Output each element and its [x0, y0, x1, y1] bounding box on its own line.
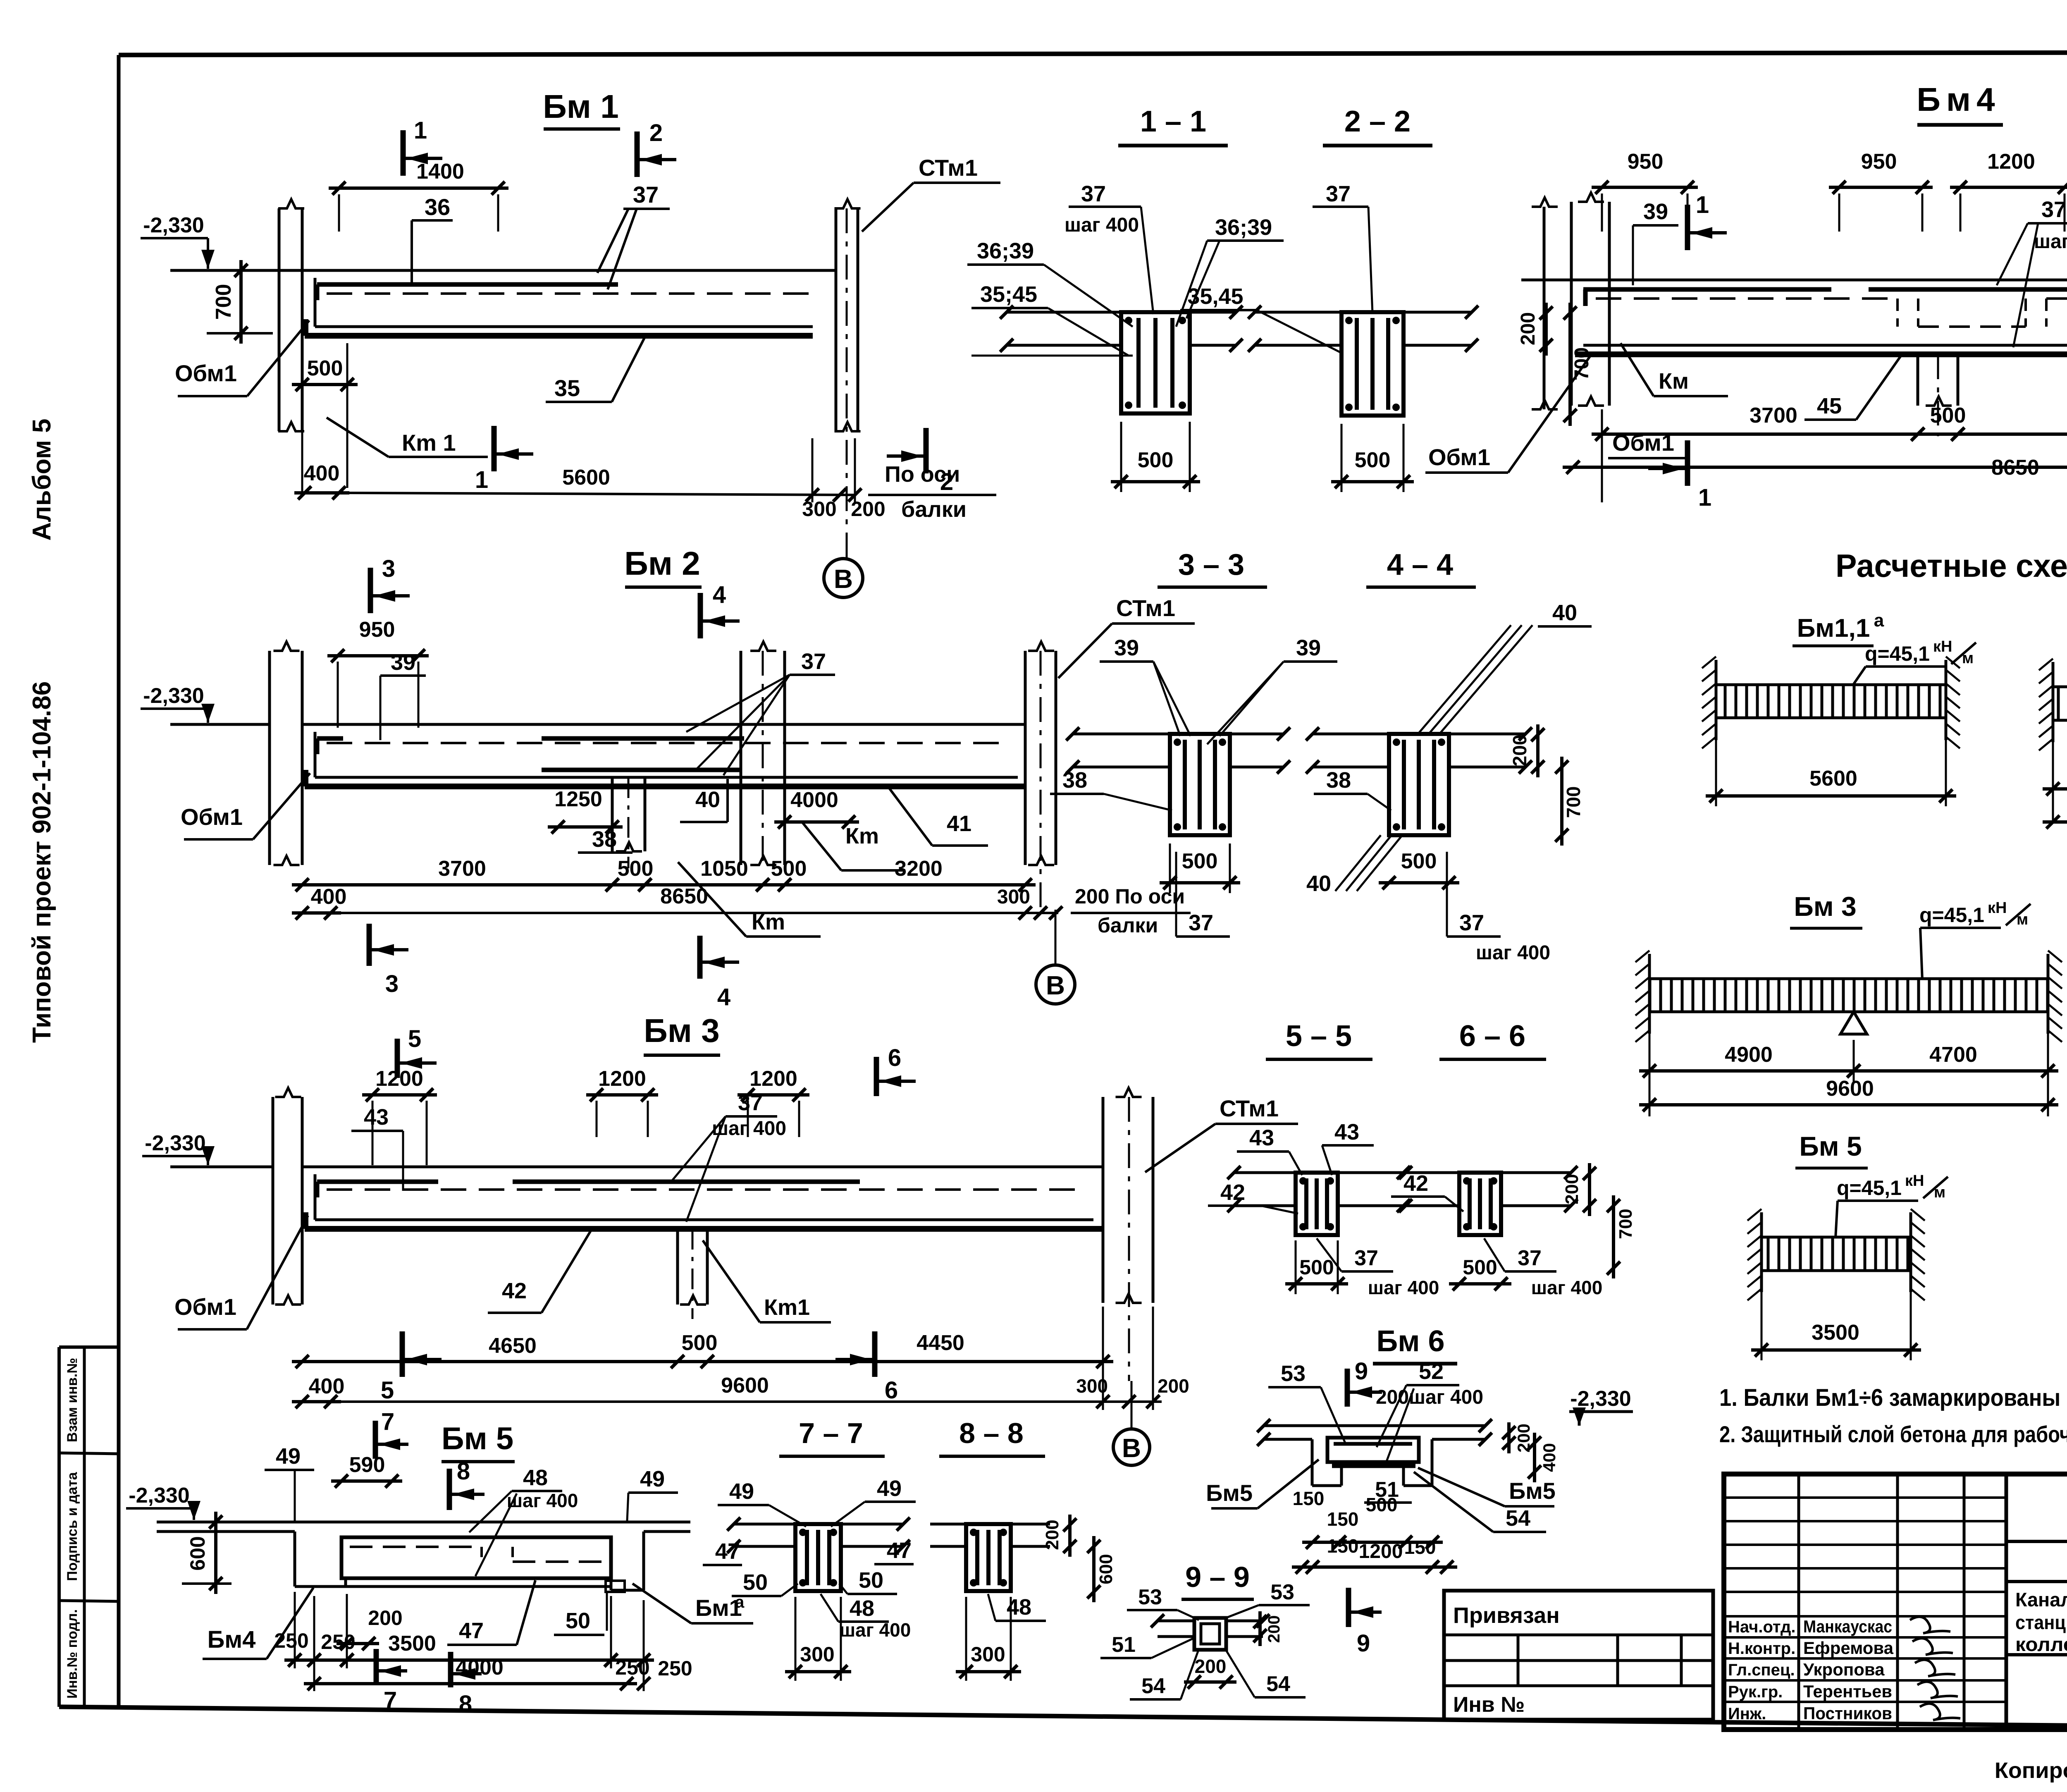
svg-text:5: 5 — [381, 1377, 394, 1404]
svg-text:7: 7 — [384, 1687, 397, 1714]
svg-text:Бм 5: Бм 5 — [1799, 1131, 1862, 1161]
svg-text:7: 7 — [381, 1408, 394, 1435]
svg-text:9600: 9600 — [1826, 1077, 1874, 1101]
svg-text:Бм 2: Бм 2 — [624, 545, 700, 582]
svg-text:Бм5: Бм5 — [1509, 1478, 1556, 1504]
svg-text:39: 39 — [1643, 199, 1668, 224]
svg-text:кН: кН — [1988, 899, 2007, 917]
svg-text:1200: 1200 — [375, 1067, 423, 1091]
svg-text:Бм 1: Бм 1 — [543, 88, 618, 125]
svg-text:3500: 3500 — [388, 1632, 436, 1656]
svg-text:47: 47 — [459, 1618, 484, 1643]
svg-text:150: 150 — [1327, 1535, 1359, 1557]
svg-text:9: 9 — [1355, 1358, 1368, 1385]
svg-text:Кm1: Кm1 — [764, 1295, 810, 1320]
svg-text:Бм 3: Бм 3 — [644, 1012, 719, 1049]
svg-text:Бм5: Бм5 — [1206, 1480, 1253, 1506]
svg-text:8 – 8: 8 – 8 — [959, 1417, 1024, 1449]
svg-text:-2,330: -2,330 — [143, 213, 204, 237]
svg-text:35,45: 35,45 — [1187, 284, 1243, 309]
svg-text:2 – 2: 2 – 2 — [1344, 105, 1411, 138]
svg-text:39: 39 — [1114, 636, 1139, 660]
svg-text:1200: 1200 — [749, 1067, 797, 1091]
svg-text:-2,330: -2,330 — [143, 684, 204, 708]
svg-text:Нач.отд.: Нач.отд. — [1728, 1618, 1795, 1636]
svg-text:600: 600 — [1096, 1554, 1116, 1584]
svg-text:станция при глубине заложения: станция при глубине заложения — [2015, 1611, 2067, 1633]
svg-text:500: 500 — [1182, 849, 1218, 873]
svg-text:250: 250 — [274, 1629, 308, 1652]
svg-text:51: 51 — [1112, 1633, 1136, 1657]
svg-text:500: 500 — [1355, 448, 1391, 472]
svg-text:м: м — [1934, 1184, 1945, 1201]
svg-text:Кm 1: Кm 1 — [402, 430, 456, 456]
svg-text:200: 200 — [1509, 735, 1530, 767]
svg-text:1. Балки Бм1÷6 замаркированы К: 1. Балки Бм1÷6 замаркированы КЖ-23. — [1719, 1384, 2067, 1411]
svg-text:балки: балки — [901, 497, 967, 522]
svg-text:-2,330: -2,330 — [145, 1131, 205, 1155]
svg-text:950: 950 — [1628, 150, 1664, 174]
svg-text:53: 53 — [1281, 1361, 1306, 1386]
svg-text:5600: 5600 — [562, 466, 610, 490]
svg-text:36: 36 — [425, 194, 450, 220]
svg-text:200: 200 — [1517, 312, 1539, 345]
svg-text:200 По оси: 200 По оси — [1075, 885, 1185, 908]
svg-text:250: 250 — [658, 1657, 692, 1680]
svg-text:250: 250 — [321, 1630, 355, 1653]
svg-text:500: 500 — [1366, 1494, 1398, 1515]
svg-text:42: 42 — [1220, 1180, 1245, 1205]
svg-text:5600: 5600 — [1809, 767, 1857, 791]
svg-text:42: 42 — [502, 1278, 527, 1303]
svg-text:Канализационная насосная: Канализационная насосная — [2015, 1589, 2067, 1610]
svg-text:37: 37 — [1459, 910, 1484, 935]
svg-text:700: 700 — [212, 284, 236, 320]
svg-text:1: 1 — [475, 466, 488, 493]
svg-text:4450: 4450 — [917, 1331, 964, 1355]
svg-text:53: 53 — [1270, 1580, 1294, 1604]
svg-text:200: 200 — [1265, 1615, 1283, 1643]
svg-text:Кm: Кm — [752, 910, 785, 934]
svg-text:Альбом 5: Альбом 5 — [28, 418, 56, 540]
svg-text:Копировал Т.И: Копировал Т.И — [1995, 1758, 2067, 1783]
svg-text:49: 49 — [640, 1467, 665, 1491]
svg-text:37: 37 — [633, 182, 659, 208]
svg-text:49: 49 — [877, 1476, 902, 1501]
svg-text:150: 150 — [1293, 1488, 1325, 1509]
svg-text:6: 6 — [885, 1377, 898, 1404]
svg-text:42: 42 — [1403, 1171, 1428, 1196]
svg-text:36;39: 36;39 — [1215, 215, 1272, 240]
svg-text:37: 37 — [801, 649, 826, 674]
svg-text:35: 35 — [554, 375, 580, 401]
svg-text:Обм1: Обм1 — [1428, 444, 1490, 470]
svg-text:В: В — [1122, 1433, 1141, 1463]
svg-text:3200: 3200 — [895, 857, 943, 881]
svg-text:35;45: 35;45 — [980, 282, 1037, 307]
svg-text:38: 38 — [1326, 768, 1351, 793]
svg-text:1050: 1050 — [700, 857, 748, 881]
svg-text:Привязан: Привязан — [1453, 1603, 1560, 1628]
svg-text:300: 300 — [802, 497, 836, 521]
svg-text:200: 200 — [1562, 1174, 1582, 1204]
svg-text:кН: кН — [1905, 1172, 1924, 1190]
svg-text:41: 41 — [947, 811, 971, 836]
svg-text:47: 47 — [887, 1538, 912, 1563]
svg-text:шаг 400: шаг 400 — [1531, 1277, 1603, 1298]
svg-text:шаг 400: шаг 400 — [840, 1619, 911, 1641]
svg-text:37: 37 — [1354, 1246, 1378, 1270]
svg-text:39: 39 — [391, 650, 415, 675]
svg-text:9: 9 — [1357, 1630, 1370, 1657]
svg-text:Инж.: Инж. — [1728, 1705, 1766, 1723]
svg-text:коллектора-4,0 м.: коллектора-4,0 м. — [2015, 1633, 2067, 1655]
svg-text:Км: Км — [1659, 369, 1689, 394]
svg-text:1250: 1250 — [554, 787, 602, 811]
svg-text:400: 400 — [304, 461, 340, 485]
svg-text:6 – 6: 6 – 6 — [1459, 1020, 1525, 1053]
svg-text:53: 53 — [1138, 1585, 1162, 1609]
svg-text:4000: 4000 — [790, 788, 838, 812]
svg-text:Бм4: Бм4 — [208, 1626, 256, 1653]
svg-text:500: 500 — [1463, 1256, 1497, 1279]
svg-text:8: 8 — [459, 1691, 472, 1718]
svg-text:Укропова: Укропова — [1803, 1660, 1885, 1679]
svg-text:шаг 400: шаг 400 — [1409, 1386, 1483, 1408]
svg-text:2: 2 — [940, 468, 953, 495]
svg-text:1: 1 — [414, 117, 427, 144]
svg-text:8: 8 — [457, 1458, 470, 1485]
svg-text:Обм1: Обм1 — [175, 360, 237, 386]
svg-text:300: 300 — [800, 1643, 834, 1666]
svg-text:500: 500 — [618, 857, 654, 881]
svg-text:200: 200 — [851, 497, 885, 521]
svg-text:Бм 5: Бм 5 — [442, 1421, 513, 1456]
svg-text:37: 37 — [2041, 197, 2066, 222]
svg-text:Рук.гр.: Рук.гр. — [1728, 1683, 1783, 1701]
svg-text:200: 200 — [368, 1606, 402, 1630]
svg-text:500: 500 — [771, 857, 807, 881]
svg-text:54: 54 — [1506, 1506, 1530, 1531]
svg-text:4700: 4700 — [1929, 1043, 1977, 1067]
svg-text:балки: балки — [1098, 914, 1158, 937]
svg-text:Подпись и дата: Подпись и дата — [64, 1472, 80, 1581]
svg-text:Н.контр.: Н.контр. — [1728, 1639, 1795, 1658]
svg-text:шаг 400: шаг 400 — [1476, 942, 1550, 964]
svg-text:47: 47 — [715, 1539, 740, 1564]
svg-text:500: 500 — [682, 1331, 718, 1355]
svg-text:500: 500 — [1299, 1256, 1334, 1279]
svg-text:а: а — [1874, 610, 1884, 631]
svg-text:шаг 400: шаг 400 — [1065, 214, 1139, 236]
svg-text:54: 54 — [1141, 1674, 1165, 1698]
svg-text:1200: 1200 — [1987, 150, 2035, 174]
svg-text:150: 150 — [1327, 1508, 1359, 1530]
svg-text:3 – 3: 3 – 3 — [1178, 548, 1244, 581]
svg-text:37: 37 — [1081, 182, 1106, 206]
svg-text:3700: 3700 — [438, 857, 486, 881]
svg-text:Типовой проект 902-1-104.86: Типовой проект 902-1-104.86 — [28, 681, 56, 1043]
svg-text:5: 5 — [408, 1025, 421, 1052]
svg-text:300: 300 — [971, 1643, 1005, 1666]
svg-text:400: 400 — [309, 1374, 345, 1398]
svg-text:q=45,1: q=45,1 — [1865, 642, 1930, 665]
svg-text:3500: 3500 — [1812, 1321, 1859, 1345]
svg-text:4900: 4900 — [1725, 1043, 1773, 1067]
svg-text:48: 48 — [850, 1596, 874, 1621]
svg-text:49: 49 — [276, 1444, 301, 1469]
svg-text:1 – 1: 1 – 1 — [1140, 105, 1206, 138]
svg-text:200: 200 — [1158, 1375, 1189, 1397]
svg-text:q=45,1: q=45,1 — [1837, 1176, 1902, 1199]
svg-text:Обм1: Обм1 — [174, 1294, 236, 1320]
svg-text:м: м — [1962, 650, 1974, 667]
svg-text:950: 950 — [1861, 150, 1897, 174]
svg-text:7 – 7: 7 – 7 — [799, 1417, 863, 1449]
svg-text:50: 50 — [743, 1570, 768, 1595]
svg-text:4: 4 — [717, 984, 730, 1011]
svg-text:Бм 6: Бм 6 — [1376, 1325, 1444, 1358]
svg-text:Манкаускас: Манкаускас — [1803, 1617, 1892, 1636]
svg-text:400: 400 — [1540, 1443, 1559, 1472]
svg-text:2. Защитный слой бетона для ра: 2. Защитный слой бетона для рабочей арма… — [1719, 1421, 2067, 1447]
svg-text:3700: 3700 — [1750, 404, 1797, 428]
svg-text:Бм4: Бм4 — [1917, 81, 2000, 118]
svg-text:37: 37 — [1189, 910, 1213, 935]
svg-text:9 – 9: 9 – 9 — [1185, 1561, 1250, 1593]
svg-text:38: 38 — [592, 827, 617, 852]
svg-text:4: 4 — [713, 581, 726, 608]
svg-text:3: 3 — [385, 970, 399, 997]
svg-text:СТм1: СТм1 — [919, 155, 978, 181]
svg-text:700: 700 — [1563, 786, 1584, 818]
svg-text:37: 37 — [1326, 182, 1351, 206]
svg-text:45: 45 — [1817, 394, 1842, 418]
svg-text:37: 37 — [738, 1090, 763, 1115]
svg-text:700: 700 — [1616, 1209, 1636, 1239]
svg-text:600: 600 — [186, 1536, 209, 1570]
svg-text:500: 500 — [1930, 404, 1966, 428]
svg-text:9600: 9600 — [721, 1374, 769, 1398]
svg-text:Гл.спец.: Гл.спец. — [1728, 1661, 1795, 1679]
svg-text:36;39: 36;39 — [977, 239, 1034, 263]
svg-text:4 – 4: 4 – 4 — [1387, 548, 1453, 581]
svg-text:43: 43 — [1249, 1125, 1274, 1150]
svg-text:СТм1: СТм1 — [1116, 595, 1175, 621]
svg-text:38: 38 — [1062, 768, 1087, 793]
svg-text:Бм1,1: Бм1,1 — [1797, 614, 1870, 643]
svg-text:Постников: Постников — [1803, 1704, 1892, 1723]
svg-text:43: 43 — [1334, 1120, 1359, 1144]
svg-text:4650: 4650 — [489, 1334, 537, 1358]
svg-text:49: 49 — [729, 1479, 754, 1504]
svg-text:39: 39 — [1296, 636, 1321, 660]
svg-text:150: 150 — [1404, 1536, 1436, 1558]
svg-text:шаг 400: шаг 400 — [1368, 1277, 1439, 1298]
svg-text:Расчетные схемы балок: Расчетные схемы балок — [1835, 547, 2067, 584]
svg-text:-2,330: -2,330 — [129, 1484, 189, 1508]
svg-text:43: 43 — [364, 1105, 389, 1130]
svg-text:1200: 1200 — [598, 1067, 646, 1091]
svg-text:40: 40 — [1552, 600, 1577, 625]
svg-text:1400: 1400 — [416, 160, 464, 184]
svg-text:500: 500 — [1401, 849, 1437, 873]
svg-text:кН: кН — [1933, 638, 1952, 655]
svg-text:400: 400 — [311, 885, 347, 909]
svg-text:6: 6 — [888, 1044, 901, 1071]
svg-text:Терентьев: Терентьев — [1803, 1682, 1892, 1701]
svg-text:Инв.№ подл.: Инв.№ подл. — [64, 1609, 80, 1699]
svg-text:8650: 8650 — [1991, 456, 2039, 480]
svg-text:1200: 1200 — [1359, 1541, 1403, 1563]
svg-text:52: 52 — [1419, 1359, 1444, 1384]
svg-text:50: 50 — [859, 1568, 883, 1593]
svg-text:Обм1: Обм1 — [181, 804, 243, 830]
svg-text:q=45,1: q=45,1 — [1919, 903, 1984, 927]
svg-text:1: 1 — [1696, 191, 1709, 218]
svg-text:шаг 400: шаг 400 — [507, 1490, 578, 1511]
svg-text:Бм 3: Бм 3 — [1794, 891, 1856, 922]
svg-text:950: 950 — [359, 618, 395, 642]
svg-text:В: В — [834, 564, 853, 594]
svg-text:м: м — [2017, 911, 2028, 928]
svg-text:590: 590 — [349, 1453, 385, 1477]
svg-text:40: 40 — [1306, 871, 1331, 896]
svg-text:шаг 400: шаг 400 — [2034, 231, 2067, 253]
svg-text:СТм1: СТм1 — [1220, 1095, 1279, 1121]
svg-text:3: 3 — [382, 555, 395, 582]
svg-text:5 – 5: 5 – 5 — [1286, 1020, 1352, 1053]
svg-text:500: 500 — [1138, 448, 1174, 472]
svg-text:300: 300 — [997, 886, 1030, 908]
svg-text:500: 500 — [307, 356, 343, 380]
svg-text:Ефремова: Ефремова — [1803, 1638, 1894, 1658]
svg-text:Инв №: Инв № — [1453, 1693, 1525, 1717]
svg-text:Взам инв.№: Взам инв.№ — [64, 1358, 80, 1442]
svg-text:В: В — [1046, 970, 1065, 1000]
svg-text:37: 37 — [1518, 1246, 1542, 1270]
svg-text:48: 48 — [523, 1465, 548, 1490]
svg-text:54: 54 — [1266, 1672, 1290, 1696]
svg-text:50: 50 — [566, 1608, 590, 1633]
svg-text:-2,330: -2,330 — [1570, 1387, 1631, 1411]
svg-text:40: 40 — [695, 787, 720, 812]
svg-text:200: 200 — [1195, 1656, 1227, 1677]
svg-text:Кm: Кm — [845, 824, 879, 848]
svg-text:2: 2 — [649, 119, 663, 146]
svg-text:200: 200 — [1042, 1520, 1062, 1550]
svg-text:1: 1 — [1698, 484, 1711, 511]
